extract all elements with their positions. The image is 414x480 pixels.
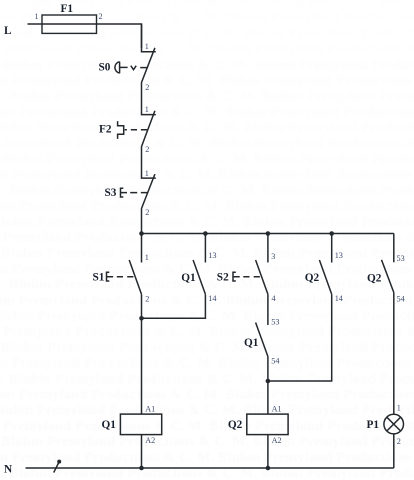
dot of N line tick — [57, 460, 61, 464]
svg-text:M. Bluhm Premyland Productions: M. Bluhm Premyland Productions & C. M. B… — [0, 372, 414, 387]
wire S3 to bus — [141, 209, 143, 234]
svg-text:M. Bluhm Premyland Productions: M. Bluhm Premyland Productions & C. M. B… — [0, 419, 414, 434]
svg-text:Q2: Q2 — [228, 419, 243, 431]
junction dot coil Q1 at N — [139, 466, 144, 471]
svg-text:Q1: Q1 — [102, 419, 117, 431]
wire Q1 aux 14 to junction — [142, 294, 206, 318]
N line connection tick — [54, 462, 59, 473]
wire lamp P1 to N corner — [393, 434, 395, 468]
switch S3 NC contact — [142, 174, 156, 209]
svg-text:M. Bluhm Premyland Productions: M. Bluhm Premyland Productions & C. M. B… — [0, 199, 414, 214]
svg-text:M. Bluhm Premyland Productions: M. Bluhm Premyland Productions & C. M. B… — [0, 74, 414, 89]
svg-text:2: 2 — [99, 12, 103, 21]
wire Q1 aux 54 to junction — [267, 357, 269, 382]
F2 actuator thermal element — [118, 121, 147, 139]
svg-text:M. Bluhm Premyland Productions: M. Bluhm Premyland Productions & C. M. B… — [0, 136, 414, 151]
svg-text:M. Bluhm Premyland Productions: M. Bluhm Premyland Productions & C. M. B… — [0, 262, 414, 277]
wire coil Q2 to N — [267, 435, 269, 468]
svg-text:Q2: Q2 — [305, 272, 320, 284]
svg-text:M. Bluhm Premyland Productions: M. Bluhm Premyland Productions & C. M. B… — [0, 246, 414, 261]
svg-text:M. Bluhm Premyland Productions: M. Bluhm Premyland Productions & C. M. B… — [0, 89, 414, 104]
wire L feed to fuse — [28, 23, 43, 25]
junction dot coil Q2 at N — [266, 466, 271, 471]
S2 actuator manual lever — [233, 272, 260, 281]
svg-text:M. Bluhm Premyland Productions: M. Bluhm Premyland Productions & C. M. B… — [0, 152, 414, 167]
wire Q2 aux 54 to lamp P1 — [393, 293, 395, 415]
svg-text:S2: S2 — [217, 271, 229, 283]
svg-text:A2: A2 — [272, 436, 282, 445]
svg-text:M. Bluhm Premyland Productions: M. Bluhm Premyland Productions & C. M. B… — [0, 58, 414, 73]
svg-text:Q1: Q1 — [244, 337, 259, 349]
svg-text:2: 2 — [145, 295, 149, 304]
wire junction to coil Q1 — [141, 318, 143, 414]
svg-text:F2: F2 — [99, 123, 112, 135]
svg-text:2: 2 — [397, 437, 401, 446]
svg-text:1: 1 — [145, 105, 149, 114]
lamp P1 — [384, 414, 404, 434]
S3 actuator manual lever — [121, 188, 148, 197]
svg-text:M. Bluhm Premyland Productions: M. Bluhm Premyland Productions & C. M. B… — [0, 183, 414, 198]
wire F2 to S3 — [141, 147, 143, 174]
svg-text:13: 13 — [208, 251, 216, 260]
coil Q2 — [247, 414, 288, 435]
svg-text:Q1: Q1 — [181, 272, 196, 284]
svg-text:14: 14 — [208, 294, 216, 303]
svg-text:53: 53 — [271, 318, 279, 327]
wire stub branch S2 — [267, 234, 269, 263]
svg-text:M. Bluhm Premyland Productions: M. Bluhm Premyland Productions & C. M. B… — [0, 403, 414, 418]
wire coil Q1 to N — [141, 435, 143, 468]
svg-text:M. Bluhm Premyland Productions: M. Bluhm Premyland Productions & C. M. B… — [0, 42, 414, 57]
junction dot bus-S1 — [139, 231, 144, 236]
svg-text:3: 3 — [271, 252, 275, 261]
wire stub branch S1 — [141, 234, 143, 263]
svg-text:P1: P1 — [367, 419, 380, 431]
junction dot S1-Q1aux node — [139, 316, 144, 321]
wire stub branch Q2 aux 13 — [331, 234, 333, 263]
contactor aux contact Q2 13-14 NO — [319, 260, 331, 294]
svg-text:1: 1 — [145, 253, 149, 262]
svg-text:M. Bluhm Premyland Productions: M. Bluhm Premyland Productions & C. M. B… — [0, 450, 414, 465]
svg-text:A2: A2 — [145, 436, 155, 445]
svg-text:M. Bluhm Premyland Productions: M. Bluhm Premyland Productions & C. M. B… — [0, 325, 414, 340]
wire junction to coil Q2 — [267, 381, 269, 414]
svg-text:1: 1 — [35, 12, 39, 21]
fuse F1 — [42, 15, 97, 33]
svg-text:14: 14 — [335, 294, 343, 303]
svg-text:S1: S1 — [93, 271, 105, 283]
svg-text:M. Bluhm Premyland Productions: M. Bluhm Premyland Productions & C. M. B… — [0, 309, 414, 324]
bus wire horizontal — [142, 233, 394, 235]
svg-text:1: 1 — [397, 404, 401, 413]
wire fuse F1 to corner down to S0 — [97, 24, 142, 48]
svg-text:A1: A1 — [272, 405, 282, 414]
svg-text:M. Bluhm Premyland Productions: M. Bluhm Premyland Productions & C. M. B… — [0, 293, 414, 308]
svg-text:M. Bluhm Premyland Productions: M. Bluhm Premyland Productions & C. M. B… — [0, 388, 414, 403]
thermal contact F2 NC — [142, 111, 156, 147]
svg-text:M. Bluhm Premyland Productions: M. Bluhm Premyland Productions & C. M. B… — [0, 215, 414, 230]
svg-text:2: 2 — [145, 83, 149, 92]
svg-text:S0: S0 — [99, 62, 111, 74]
svg-text:S3: S3 — [105, 187, 117, 199]
junction dot bus-Q1 aux — [203, 231, 208, 236]
svg-text:L: L — [4, 25, 12, 37]
wire S0 to F2 — [141, 83, 143, 111]
S1 actuator manual lever — [107, 272, 134, 281]
S0 actuator pushbutton head — [115, 62, 147, 74]
svg-text:54: 54 — [271, 357, 279, 366]
svg-text:1: 1 — [145, 169, 149, 178]
coil Q1 — [120, 414, 161, 435]
wire S2 to Q1 aux 53 — [267, 294, 269, 325]
svg-text:13: 13 — [335, 251, 343, 260]
N line wire — [26, 467, 394, 469]
wire stub branch Q2 aux 53 — [393, 234, 395, 263]
contactor aux contact Q1 13-14 NO — [193, 260, 205, 294]
wire S1 to junction — [141, 294, 143, 318]
svg-text:M. Bluhm Premyland Productions: M. Bluhm Premyland Productions & C. M. B… — [0, 435, 414, 450]
svg-text:F1: F1 — [61, 3, 74, 15]
contactor aux contact Q2 53-54 NO — [382, 260, 394, 293]
svg-text:M. Bluhm Premyland Productions: M. Bluhm Premyland Productions & C. M. B… — [0, 168, 414, 183]
junction dot S2-Q2aux node — [266, 379, 271, 384]
svg-text:M. Bluhm Premyland Productions: M. Bluhm Premyland Productions & C. M. B… — [0, 105, 414, 120]
pushbutton S1 NO contact — [129, 260, 141, 294]
svg-text:M. Bluhm Premyland Productions: M. Bluhm Premyland Productions & C. M. B… — [0, 121, 414, 136]
svg-text:M. Bluhm Premyland Productions: M. Bluhm Premyland Productions & C. M. B… — [0, 356, 414, 371]
svg-text:A1: A1 — [145, 405, 155, 414]
svg-text:53: 53 — [397, 254, 405, 263]
junction dot bus-Q2 aux — [329, 231, 334, 236]
svg-text:4: 4 — [272, 294, 276, 303]
pushbutton S0 NC contact — [142, 24, 156, 83]
svg-text:2: 2 — [145, 208, 149, 217]
svg-text:N: N — [4, 464, 13, 476]
svg-text:54: 54 — [397, 294, 405, 303]
contactor aux contact Q1 53-54 NO — [256, 323, 268, 357]
svg-text:M. Bluhm Premyland Productions: M. Bluhm Premyland Productions & C. M. B… — [0, 278, 414, 293]
svg-text:Q2: Q2 — [367, 272, 382, 284]
svg-text:2: 2 — [145, 145, 149, 154]
wire stub branch Q1 aux 13 — [204, 234, 206, 263]
svg-text:1: 1 — [145, 42, 149, 51]
svg-text:M. Bluhm Premyland Productions: M. Bluhm Premyland Productions & C. M. B… — [0, 340, 414, 355]
pushbutton S2 NO contact — [256, 260, 268, 294]
junction dot bus-S2 — [266, 231, 271, 236]
wire Q2 aux 14 to junction — [268, 294, 332, 381]
